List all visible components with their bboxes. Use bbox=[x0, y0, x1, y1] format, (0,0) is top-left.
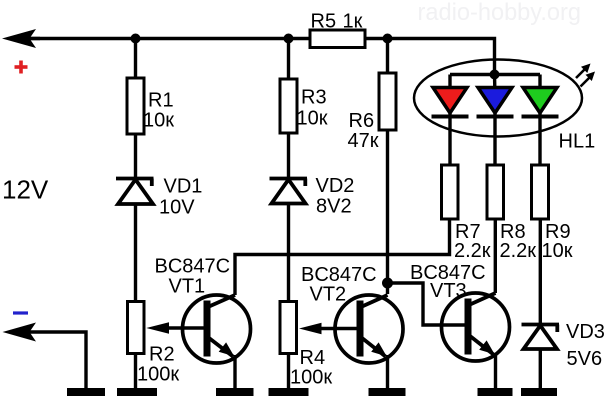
LED blue bbox=[478, 88, 512, 114]
svg-text:R6: R6 bbox=[349, 110, 375, 132]
svg-text:100к: 100к bbox=[290, 367, 332, 389]
wire VT3 emitter to ground bbox=[494, 353, 497, 388]
ground VT2 bbox=[369, 388, 406, 396]
wire R6 to node bbox=[386, 130, 389, 283]
wire R7 bottom to VT1 collector bbox=[235, 219, 450, 295]
zener VD2 bbox=[270, 179, 308, 204]
svg-text:2.2к: 2.2к bbox=[454, 240, 491, 262]
svg-text:VT2: VT2 bbox=[310, 284, 347, 306]
wire node to VT3 base bbox=[388, 283, 466, 325]
wire red LED anode stub bbox=[448, 75, 451, 89]
wire green LED anode stub bbox=[538, 75, 541, 89]
svg-text:VD3: VD3 bbox=[566, 321, 604, 343]
LED ellipse HL1 bbox=[414, 60, 582, 137]
wire red LED cathode to R7 bbox=[448, 110, 451, 166]
svg-text:10V: 10V bbox=[159, 197, 195, 219]
wire R4 bottom to ground bbox=[287, 354, 290, 389]
node dot R6/VT2/VT3 bbox=[382, 278, 393, 289]
resistor R8 bbox=[487, 165, 504, 219]
resistor R9 bbox=[532, 165, 549, 219]
terminal arrow + (top left) bbox=[2, 29, 36, 48]
wire R2 wiper to VT1 base bbox=[167, 326, 204, 329]
wire rail right of R5 bbox=[365, 39, 495, 75]
wire column R1 top bbox=[134, 39, 137, 80]
ground output bbox=[67, 388, 105, 396]
wire R1 to VD1 bbox=[134, 134, 137, 179]
wire R3 to VD2 bbox=[287, 133, 290, 179]
svg-text:VT3: VT3 bbox=[430, 280, 467, 302]
transistor VT3 bbox=[442, 293, 510, 361]
minus sign (blue) bbox=[13, 311, 28, 314]
wire R4 wiper to VT2 base bbox=[320, 327, 358, 330]
light arrowheads bbox=[581, 64, 591, 74]
svg-text:10к: 10к bbox=[542, 240, 573, 262]
wire column R3 top bbox=[287, 39, 290, 81]
ground R4 bbox=[269, 388, 309, 396]
resistor R6 bbox=[379, 73, 396, 130]
wire VT2 emitter to ground bbox=[386, 355, 389, 388]
potentiometer R2 bbox=[128, 302, 145, 354]
wire anode bus bbox=[450, 73, 540, 76]
svg-text:2.2к: 2.2к bbox=[500, 240, 537, 262]
wire R9 bottom to VD3 bbox=[539, 219, 542, 325]
svg-text:VD1: VD1 bbox=[164, 176, 203, 198]
svg-text:R5: R5 bbox=[311, 11, 337, 33]
svg-text:5V6: 5V6 bbox=[567, 348, 603, 370]
wire blue LED anode stub bbox=[493, 75, 497, 89]
svg-text:R1: R1 bbox=[148, 90, 174, 112]
node dot at R1 top bbox=[131, 34, 141, 44]
transistor VT1 bbox=[183, 295, 251, 363]
resistor R1 bbox=[127, 78, 144, 134]
wire column R6 top bbox=[386, 39, 389, 75]
svg-text:10к: 10к bbox=[297, 108, 328, 130]
svg-text:10к: 10к bbox=[143, 110, 174, 132]
LED red bbox=[433, 88, 467, 114]
wire green LED cathode to R9 bbox=[538, 110, 541, 166]
wire node to VT2 collector bbox=[386, 283, 389, 294]
svg-text:R3: R3 bbox=[301, 87, 327, 109]
LED green bbox=[523, 88, 557, 114]
plus sign (red) bbox=[15, 61, 28, 74]
potentiometer R4 bbox=[280, 302, 297, 354]
wire R2 bottom to ground bbox=[134, 354, 137, 389]
svg-text:VD2: VD2 bbox=[316, 175, 355, 197]
R4 wiper arrow bbox=[299, 323, 322, 334]
wire blue LED cathode to R8 bbox=[493, 110, 496, 166]
node dot LED common anode bbox=[490, 70, 500, 80]
ground VD3 bbox=[521, 388, 557, 396]
wire VD1 to R2 bbox=[134, 205, 137, 302]
zener VD1 bbox=[116, 179, 154, 205]
wire VD3 to ground bbox=[539, 350, 542, 388]
svg-text:BC847C: BC847C bbox=[155, 256, 231, 278]
svg-text:HL1: HL1 bbox=[559, 131, 596, 153]
node dot at R6 top bbox=[383, 34, 393, 44]
svg-text:100к: 100к bbox=[137, 364, 179, 386]
svg-text:1к: 1к bbox=[343, 11, 363, 33]
transistor VT2 bbox=[335, 295, 403, 363]
light emission arrows bbox=[576, 68, 591, 87]
R2 wiper arrow bbox=[146, 322, 169, 333]
node dot at R3 top bbox=[284, 34, 294, 44]
svg-text:47к: 47к bbox=[348, 130, 379, 152]
svg-text:radio-hobby.org: radio-hobby.org bbox=[418, 0, 582, 26]
zener VD3 bbox=[522, 325, 560, 350]
svg-text:8V2: 8V2 bbox=[316, 196, 352, 218]
resistor R3 bbox=[280, 79, 297, 133]
svg-text:R2: R2 bbox=[149, 344, 175, 366]
output arrow - (bottom left) bbox=[3, 323, 37, 342]
svg-text:VT1: VT1 bbox=[169, 276, 206, 298]
wire VD2 to R4 bbox=[287, 205, 290, 303]
wire R8 bottom to VT3 collector bbox=[494, 219, 497, 293]
ground VT3 bbox=[478, 388, 513, 396]
ground VT1 bbox=[216, 388, 254, 396]
wire VT1 emitter to ground bbox=[233, 355, 236, 388]
resistor R7 bbox=[442, 165, 459, 219]
ground R2 bbox=[117, 388, 157, 396]
wire top rail left of R5 bbox=[20, 37, 310, 40]
resistor R5 bbox=[310, 30, 365, 48]
svg-text:12V: 12V bbox=[2, 175, 49, 205]
